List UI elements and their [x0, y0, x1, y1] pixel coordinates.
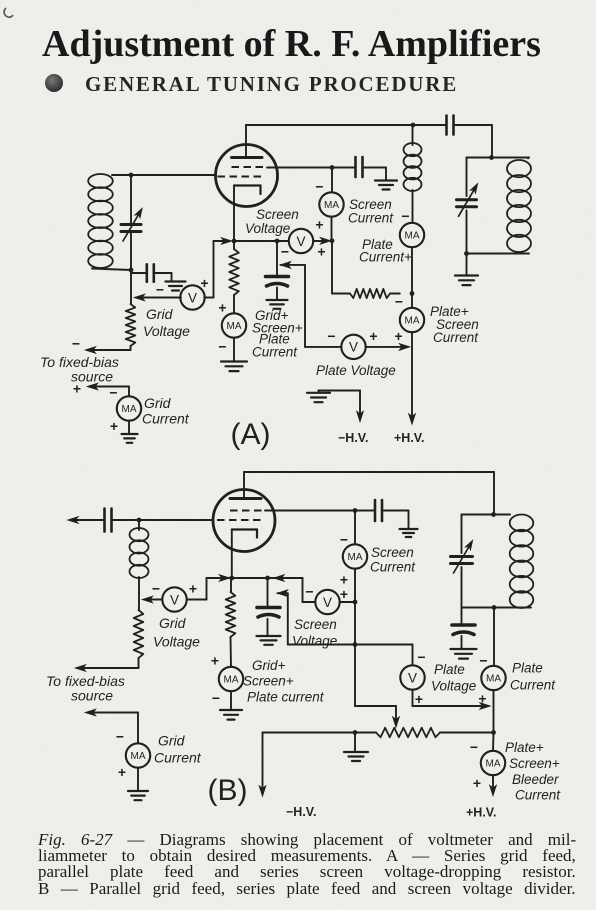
wire: grid current tap (B) — [86, 709, 139, 743]
ground: screen bypass cap (A) — [375, 168, 397, 190]
label + - (MA g+s+p B) — [211, 653, 220, 707]
wire: tube cathode lead down (A) — [233, 186, 235, 242]
ground: bypass cap (A) — [267, 288, 288, 309]
tube V2 cathode — [232, 530, 257, 538]
label Plate Current (B) — [510, 661, 556, 693]
tube V1 screen grid (dashed) — [232, 166, 268, 168]
wire: tank A bottom — [467, 253, 530, 255]
wire: MA plate current to junction (A) — [411, 247, 413, 293]
capacitor: screen bypass (B) — [355, 500, 409, 521]
tube V2 plate and lead — [230, 472, 261, 499]
arrow: antenna (B) — [68, 517, 78, 523]
label Plate+ Screen Current (A) — [430, 304, 479, 345]
junction: plate/screen node (A) — [410, 291, 415, 296]
variable capacitor C2 (A tank) — [457, 158, 480, 254]
arrow: probe into bypass node (B) — [274, 575, 284, 581]
wire: plate lead to top rail (A) — [246, 124, 445, 126]
label Grid Voltage (B) — [153, 615, 200, 650]
wire: probe to plate voltmeter (A) — [281, 265, 342, 347]
resistor: grid leak (A) — [126, 270, 136, 350]
label Plate Voltage (B) — [431, 662, 476, 694]
ground: tank blocking cap (B) — [451, 636, 477, 659]
junction: grid tank top (A) — [129, 173, 134, 178]
label - + (plate+screen A) — [394, 294, 403, 345]
label signs around screen voltmeter (A) — [281, 244, 326, 260]
milliammeter MA 'Plate Current' (A) — [400, 223, 424, 247]
resistor: screen dropping (A) — [350, 289, 400, 298]
junction: divider net (B) — [353, 642, 358, 647]
section heading — [85, 72, 458, 97]
tube V1 cathode — [234, 186, 261, 195]
variable capacitor C1 (A left) — [121, 175, 144, 270]
ground: grid bypass cap (A) — [166, 273, 186, 291]
voltmeter V 'Plate Voltage' (A) — [341, 335, 365, 359]
wire: grid current tap (A) — [88, 383, 130, 396]
label (A) — [231, 418, 271, 451]
label - + (screen current A) — [315, 179, 323, 233]
label - + + (screen current B) — [340, 532, 348, 603]
paper scan noise overlay — [0, 0, 1, 1]
inductor: plate RF choke (A) — [404, 125, 422, 223]
label (B) — [208, 774, 248, 807]
junction: tank A bottom — [464, 251, 469, 256]
milliammeter MA 'Screen Current' (B) — [343, 544, 367, 568]
wire: to fixed-bias source (B) — [76, 665, 139, 671]
label Screen Voltage (B) — [292, 617, 337, 649]
wire: -H.V. lead (A) — [319, 391, 364, 422]
ground: -H.V. return (A) — [307, 391, 330, 403]
wire: tank A top to grid — [112, 174, 216, 176]
wire: grid voltmeter to grid line (A) — [135, 294, 182, 300]
label Grid Current (A) — [142, 395, 190, 427]
junction: plate tap tank B — [492, 605, 497, 610]
junction: tank top tap (A) — [489, 155, 494, 160]
page title — [42, 22, 541, 66]
capacitor: cathode bypass (B) — [257, 578, 280, 617]
ground: below MA (B) — [220, 691, 242, 719]
wire: screen line to divider (B) — [354, 569, 356, 645]
capacitor: cathode/screen bypass (A) — [266, 241, 289, 286]
section bullet — [45, 74, 63, 92]
arrow: +H.V. (A) — [409, 414, 415, 424]
label Plate Voltage (A) — [316, 363, 396, 378]
arrow: into cathode node (A) — [222, 238, 232, 244]
junction: screen node (B) — [353, 508, 358, 513]
wire: screen net to divider tap (B) — [355, 645, 396, 723]
milliammeter MA 'Grid+Screen+Plate Current' (A) — [222, 313, 246, 337]
wire: tank to plate meter (B) — [493, 608, 495, 666]
label +H.V. (B) — [466, 806, 496, 820]
wire: plate voltmeter minus probe (B) — [278, 590, 356, 645]
milliammeter MA 'Screen Current' (A) — [319, 192, 343, 216]
milliammeter MA 'Grid Current' (A) — [117, 396, 141, 420]
vacuum tube V1 (circuit A) envelope — [216, 145, 278, 207]
milliammeter MA 'Grid+Screen+Plate current' (B) — [219, 667, 243, 691]
wire: divider left (B) — [263, 732, 377, 734]
tube V1 plate and lead — [232, 125, 263, 158]
label To fixed-bias source (B) — [46, 673, 125, 704]
junction: divider ground tap (B) — [353, 730, 358, 735]
wire: +H.V. lead (A) — [411, 332, 413, 421]
label Screen Voltage (A) — [245, 207, 299, 236]
label Grid Current (B) — [154, 733, 202, 766]
capacitor: antenna coupling (B) — [105, 509, 214, 532]
ground: tank A — [455, 254, 478, 286]
label + - (grid current wire A) — [73, 381, 118, 401]
wire: -H.V. lead (B) — [259, 733, 265, 797]
wire: screen node to dropping resistor (A) — [332, 241, 350, 294]
wire: grid-voltmeter riser (A) — [214, 241, 226, 298]
voltmeter V 'Grid Voltage' (A) — [180, 285, 204, 309]
wire: grid voltmeter right riser (B) — [187, 578, 207, 600]
junction: divider right (B) — [491, 730, 496, 735]
wire: tank B top — [462, 514, 511, 516]
milliammeter MA 'Plate+Screen Current' (A) — [400, 294, 424, 333]
label + (grid current B) — [118, 764, 126, 780]
junction: bypass tap (B) — [265, 576, 270, 581]
ground: screen bypass cap (B) — [400, 511, 418, 538]
wire: screen voltmeter to screen node (A) — [313, 238, 330, 244]
wire: plate top rail (B) — [244, 472, 494, 515]
wire: screen voltmeter right (B) — [340, 601, 355, 603]
junction: screen node (A) — [330, 165, 335, 170]
label - + (plate voltage A) — [327, 328, 377, 344]
wire: +H.V. lead (B) — [490, 775, 496, 795]
label Plate Current+ (A) — [359, 237, 412, 265]
junction: grid tank bottom (A) — [129, 268, 134, 273]
tube V2 control grid (dashed) — [217, 519, 262, 521]
junction: bypass cap tap (A) — [275, 239, 280, 244]
label Grid+ Screen+ Plate current (B) — [243, 658, 325, 705]
label -H.V. (A) — [338, 431, 368, 445]
wire: tube cathode lead (B) — [231, 530, 233, 579]
inductor: tank coil L4 (B) — [510, 515, 534, 608]
label + (grid current A) — [110, 418, 118, 434]
ground: cathode bypass (B) — [257, 619, 281, 645]
wire: plate meter to divider (B) — [493, 690, 495, 732]
wire: tank B bottom — [462, 607, 532, 609]
ground: grid current meter (B) — [128, 768, 148, 801]
junction: cathode node (B) — [229, 576, 234, 581]
capacitor: tank blocking (B) — [452, 608, 475, 635]
label To fixed-bias source — [40, 354, 119, 385]
ground: below MA grid+screen+plate (A) — [221, 338, 247, 371]
junction: plate choke tap (A) — [411, 123, 416, 128]
ground: divider (B) — [344, 733, 368, 762]
figure caption — [38, 832, 578, 897]
wire: screen grid to node (B) — [265, 510, 355, 512]
wire: screen voltmeter left riser (B) — [303, 578, 316, 602]
wire: cathode node to screen voltmeter (A) — [234, 240, 289, 242]
label - + (plate voltage B) — [415, 649, 426, 707]
wire: screen grid to node (A) — [267, 167, 332, 169]
inductor: tank coil L2 (A) — [507, 158, 531, 252]
arrow: divider tap (B) — [393, 717, 399, 727]
wire: tank A bottom (left) — [92, 269, 131, 271]
arrow: probe into bypass node (A) — [281, 262, 291, 268]
wire: top rail right segment (A) — [455, 125, 492, 158]
label Screen Current (B) — [370, 545, 416, 575]
label +H.V. (A) — [394, 431, 424, 445]
label - (grid current B) — [116, 729, 124, 745]
wire: grid voltmeter right riser (A) — [204, 297, 213, 299]
label - (screen voltmeter B) — [305, 584, 313, 600]
capacitor: grid bypass (A left) — [131, 264, 172, 282]
wire: tank A top — [467, 157, 530, 159]
label - (plate current A) — [401, 208, 409, 224]
inductor: grid choke (B) — [130, 520, 149, 610]
tube V2 screen grid (dashed) — [230, 510, 265, 512]
stray scan mark top-left corner — [4, 8, 13, 17]
label - (fixed bias A) — [72, 336, 80, 352]
milliammeter MA 'Plate+Screen+Bleeder Current' (B) — [481, 733, 505, 776]
junction: grid node (B) — [137, 518, 142, 523]
label Plate+ Screen+ Bleeder Current (B) — [505, 740, 561, 803]
label -H.V. (B) — [286, 805, 316, 819]
tube V1 control grid (dashed) — [218, 176, 266, 178]
label - + (MA bleeder B) — [470, 739, 481, 791]
vacuum tube V2 (circuit B) envelope — [213, 490, 275, 552]
resistor: grid leak (B) — [134, 610, 144, 668]
label - + (grid voltage A) — [156, 275, 209, 298]
arrow: into cathode node (B) — [220, 575, 230, 581]
voltmeter V 'Screen Voltage' (B) — [315, 590, 339, 614]
wire: net to plate voltmeter (B) — [355, 645, 413, 666]
voltmeter V 'Screen Voltage' (A) — [289, 229, 313, 253]
label Grid+ Screen+ Plate Current (A) — [252, 308, 303, 360]
wire: MA screen current to screen-volt junction — [330, 217, 335, 244]
wire: to fixed-bias source (A) — [86, 347, 131, 353]
resistor: grid leak+screen series (A center) — [229, 241, 239, 313]
variable capacitor C4 (B tank) — [451, 515, 475, 608]
milliammeter MA 'Grid Current' (B) — [126, 743, 150, 767]
voltmeter V 'Grid Voltage' (B) — [162, 587, 186, 611]
label Grid Voltage (A) — [143, 306, 190, 339]
label + - (MA grid+screen+plate A) — [218, 300, 226, 355]
ground: grid current meter (A) — [122, 421, 138, 443]
resistor: bleeder/divider (B) — [376, 728, 494, 738]
wire: plate voltmeter to plate line (B) — [413, 690, 491, 710]
junction: cathode node (A) — [232, 239, 237, 244]
wire: antenna line (B) — [73, 519, 104, 521]
label Screen Current (A) — [348, 197, 394, 226]
label - + (plate current B) — [478, 653, 487, 707]
wire: grid voltmeter left (B) — [143, 596, 163, 602]
label - + (grid voltage B) — [152, 581, 197, 597]
inductor: antenna coil L1 (A) — [88, 174, 113, 268]
wire: cathode row (B) — [207, 577, 303, 579]
wire: screen node down to MA (A) — [331, 168, 333, 193]
wire: screen node down (B) — [354, 511, 356, 545]
capacitor: screen bypass (A) — [332, 157, 386, 177]
milliammeter MA 'Plate Current' (B) — [481, 666, 505, 690]
junction: tank tap (B) — [491, 512, 496, 517]
resistor: grid+screen+plate (B) — [226, 578, 236, 667]
voltmeter V 'Plate Voltage' (B) — [400, 665, 424, 689]
wire: plate voltmeter to plate line (A) — [366, 344, 410, 350]
capacitor: plate blocking cap (A top) — [447, 116, 454, 135]
junction: screen voltmeter tap (B) — [353, 600, 358, 605]
